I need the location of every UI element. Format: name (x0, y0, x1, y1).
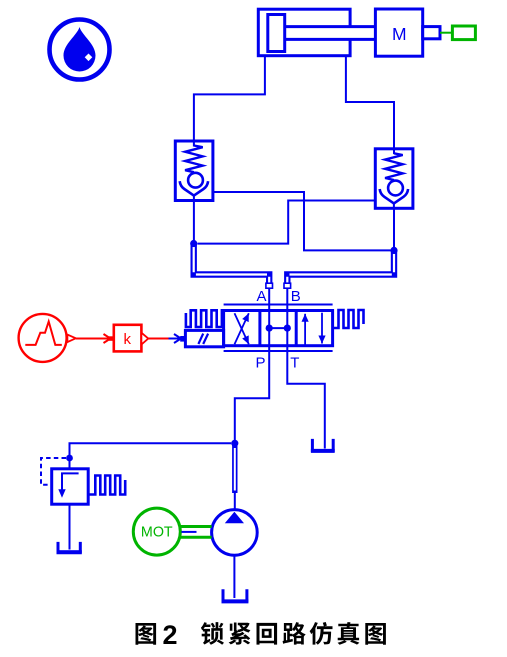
svg-text:T: T (290, 355, 299, 372)
directional valve body (224, 311, 333, 346)
relief pilot junction dot (66, 455, 73, 462)
tank pump (222, 589, 249, 601)
green link wire (440, 32, 452, 34)
label B (291, 288, 301, 305)
wire pump junction to relief valve (70, 443, 232, 469)
node A junction dot (190, 240, 197, 247)
rod stub (423, 27, 440, 39)
pump outlet double line (232, 444, 237, 511)
tank relief (57, 542, 82, 552)
motor MOT (133, 508, 180, 555)
svg-text:M: M (392, 24, 407, 44)
gain output port (141, 333, 148, 345)
caption 图2 锁紧回路仿真图 (136, 620, 386, 650)
wire node A to valve port A (double line) (194, 244, 270, 289)
svg-text:A: A (256, 288, 266, 305)
label A (256, 288, 266, 305)
relief valve spring (88, 476, 125, 495)
label P (255, 355, 265, 372)
wire cylinder right port (346, 56, 394, 154)
svg-text:MOT: MOT (141, 525, 173, 541)
mass M block (375, 9, 422, 56)
pilot-operated check valve V1 (175, 141, 213, 201)
pilot line V1 (senses node B) (213, 192, 391, 250)
valve bottom rail (224, 350, 333, 352)
pilot line V2 (senses node A) (197, 201, 375, 244)
signal source (19, 314, 67, 362)
blue wire into solenoid (169, 334, 182, 343)
label T (290, 355, 299, 372)
piston rod (285, 27, 376, 40)
tank T line (311, 439, 335, 451)
pump (212, 510, 258, 556)
piston (268, 15, 285, 52)
valve port B connector nub (284, 283, 291, 288)
pilot-operated check valve V2 (375, 149, 413, 209)
wire relief valve to tank (69, 504, 71, 549)
wire node B to valve port B (double line) (287, 250, 394, 288)
wire V1 to node A (193, 201, 195, 244)
wire cylinder left port (194, 56, 265, 147)
valve right spring (333, 310, 364, 328)
motor shaft (180, 527, 211, 538)
valve left position crossed arrows (235, 313, 249, 344)
node B junction dot (390, 247, 397, 254)
valve left spring (186, 310, 224, 327)
pump junction dot (231, 440, 238, 447)
proportional solenoid (180, 330, 223, 346)
green sensor block (452, 26, 475, 40)
gain block k (114, 325, 142, 352)
source output port (67, 335, 75, 343)
svg-text:P: P (255, 355, 265, 372)
wire pump to tank (233, 555, 235, 598)
relief valve dashed pilot line (41, 458, 66, 485)
valve centre position blocked ports (266, 325, 291, 332)
wire V2 to node B (393, 208, 395, 250)
svg-text:2: 2 (163, 620, 178, 650)
wire valve port T to tank (287, 288, 325, 449)
valve right position parallel arrows (302, 313, 326, 345)
svg-text:k: k (124, 331, 132, 348)
logo drop (64, 27, 96, 72)
red signal wire (76, 334, 114, 343)
red wire to valve (148, 338, 168, 340)
relief valve body (52, 469, 88, 504)
svg-text:B: B (291, 288, 301, 305)
logo ring (50, 20, 110, 80)
wire valve port P to pump junction (235, 288, 269, 443)
valve port A connector nub (266, 283, 273, 288)
cylinder body (258, 9, 350, 56)
valve top rail (224, 304, 333, 306)
